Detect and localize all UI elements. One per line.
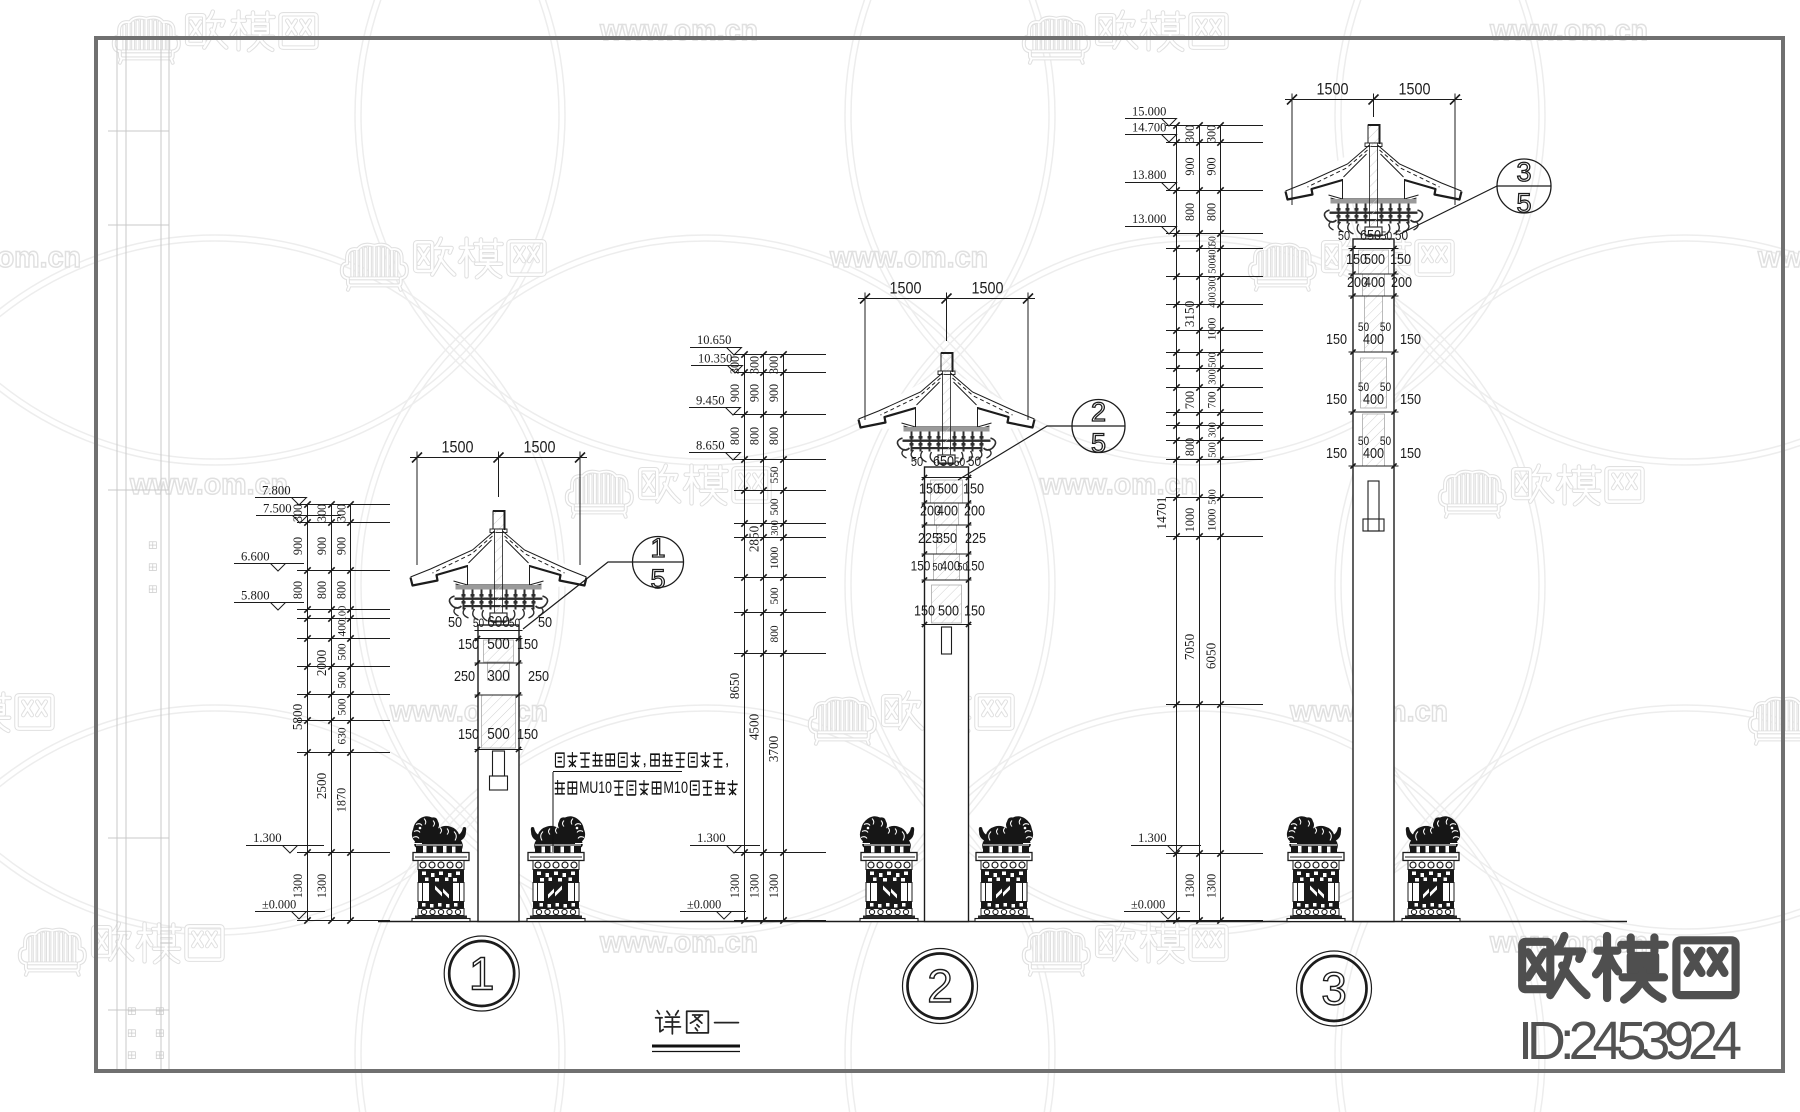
- svg-text:50: 50: [1338, 228, 1350, 243]
- svg-text:1300: 1300: [1204, 874, 1219, 898]
- svg-text:400: 400: [1363, 331, 1384, 348]
- svg-text:550: 550: [767, 467, 781, 484]
- svg-text:800: 800: [1182, 438, 1197, 456]
- svg-text:900: 900: [290, 537, 305, 555]
- svg-text:15.000: 15.000: [1132, 103, 1166, 118]
- svg-text:150: 150: [963, 481, 984, 498]
- svg-text:300: 300: [766, 356, 781, 374]
- svg-text:1500: 1500: [972, 279, 1004, 298]
- lion statue pedestal left of tower 3: [1287, 816, 1345, 921]
- svg-text:1300: 1300: [290, 874, 305, 898]
- drawing number circle 3: [1297, 951, 1372, 1026]
- svg-text:800: 800: [1204, 203, 1219, 221]
- svg-text:800: 800: [334, 581, 349, 599]
- svg-text:www.om.cn: www.om.cn: [1757, 241, 1800, 274]
- svg-text:2850: 2850: [748, 526, 763, 552]
- svg-text:150: 150: [517, 726, 538, 743]
- svg-text:1000: 1000: [1205, 318, 1219, 341]
- masonry note text line 1: [555, 750, 729, 769]
- detail callout 2/5: [1072, 400, 1125, 453]
- svg-text:250: 250: [528, 668, 549, 685]
- svg-text:9.450: 9.450: [696, 393, 725, 408]
- svg-text:150: 150: [911, 558, 931, 574]
- svg-text:150: 150: [1326, 331, 1347, 348]
- svg-text:3: 3: [1516, 157, 1531, 187]
- svg-text:800: 800: [727, 427, 742, 445]
- svg-text:225: 225: [965, 530, 986, 547]
- svg-text:1.300: 1.300: [253, 830, 282, 845]
- svg-text:150: 150: [1326, 445, 1347, 462]
- svg-text:50: 50: [509, 616, 521, 630]
- svg-text:500: 500: [1207, 258, 1219, 274]
- lion statue pedestal left of tower 1: [412, 816, 470, 921]
- tower 3 roof and dougong: [1286, 125, 1462, 237]
- svg-text:www.om.cn: www.om.cn: [599, 14, 758, 47]
- svg-text:6050: 6050: [1205, 643, 1220, 669]
- tower 2 roof and dougong: [859, 353, 1035, 465]
- svg-text:50: 50: [954, 455, 966, 469]
- svg-text:7.500: 7.500: [263, 501, 292, 516]
- svg-text:150: 150: [1400, 391, 1421, 408]
- svg-text:800: 800: [314, 581, 329, 599]
- svg-text:500: 500: [1207, 352, 1219, 368]
- svg-text:300: 300: [487, 668, 510, 685]
- svg-text:400: 400: [1364, 274, 1385, 291]
- ground line: [378, 921, 1627, 923]
- om.cn logo: [1522, 936, 1735, 1000]
- svg-text:500: 500: [335, 699, 349, 716]
- detail callout 3/5: [1497, 159, 1551, 213]
- sheet border and title block: [108, 38, 169, 1071]
- svg-text:4500: 4500: [748, 714, 763, 740]
- svg-text:900: 900: [766, 384, 781, 402]
- svg-text:500: 500: [335, 672, 349, 689]
- drawing number circle 2: [903, 949, 978, 1024]
- tower 3 dimension chain: [1155, 122, 1263, 923]
- svg-text:14.700: 14.700: [1132, 120, 1166, 135]
- svg-text:www.om.cn: www.om.cn: [0, 241, 81, 274]
- svg-text:900: 900: [334, 537, 349, 555]
- svg-text:500: 500: [335, 644, 349, 661]
- lion statue pedestal right of tower 1: [527, 816, 585, 921]
- tower 1 dimension chain: [290, 501, 390, 923]
- svg-text:300: 300: [1207, 422, 1219, 438]
- svg-text:1870: 1870: [334, 788, 349, 812]
- svg-text:5.800: 5.800: [241, 587, 270, 602]
- svg-text:50: 50: [538, 614, 552, 631]
- svg-text:100: 100: [337, 605, 349, 621]
- svg-text:50: 50: [1381, 229, 1393, 243]
- svg-text:3700: 3700: [767, 736, 782, 762]
- svg-text:800: 800: [290, 581, 305, 599]
- svg-text:500: 500: [767, 588, 781, 605]
- svg-text:300: 300: [1204, 125, 1219, 143]
- svg-text:800: 800: [767, 626, 781, 643]
- svg-text:50: 50: [473, 616, 485, 630]
- svg-text:500: 500: [767, 499, 781, 516]
- svg-text:1.300: 1.300: [697, 830, 726, 845]
- svg-text:ID:2453924: ID:2453924: [1518, 1011, 1742, 1071]
- svg-text:800: 800: [1182, 203, 1197, 221]
- tower 3 column: [1353, 239, 1394, 922]
- svg-text:2: 2: [927, 960, 953, 1012]
- svg-text:MU10: MU10: [579, 778, 612, 797]
- svg-text:800: 800: [747, 427, 762, 445]
- svg-text:1000: 1000: [1182, 508, 1197, 532]
- svg-text:1300: 1300: [747, 874, 762, 898]
- tower 1 top dimension 1500+1500: [410, 457, 587, 459]
- svg-text:400: 400: [1207, 244, 1219, 260]
- svg-text:13.000: 13.000: [1132, 211, 1166, 226]
- svg-text:400: 400: [1207, 292, 1219, 308]
- svg-text:M10: M10: [663, 778, 688, 797]
- svg-text:13.800: 13.800: [1132, 167, 1166, 182]
- svg-text:1.300: 1.300: [1138, 830, 1167, 845]
- svg-text:1500: 1500: [1317, 80, 1349, 99]
- svg-text:500: 500: [1207, 489, 1219, 505]
- svg-text:50: 50: [911, 454, 923, 469]
- svg-text:900: 900: [1182, 157, 1197, 175]
- svg-text:6.600: 6.600: [241, 549, 270, 564]
- svg-text:300: 300: [334, 504, 349, 522]
- svg-text:300: 300: [314, 504, 329, 522]
- svg-text:1000: 1000: [1205, 509, 1219, 532]
- tower 1 column: [478, 625, 519, 922]
- svg-text:300: 300: [1207, 369, 1219, 385]
- svg-text:50: 50: [1395, 227, 1408, 243]
- svg-text:150: 150: [1390, 251, 1411, 268]
- svg-text:500: 500: [1364, 251, 1385, 268]
- svg-text:±0.000: ±0.000: [1131, 897, 1165, 912]
- tower 1 roof and dougong: [411, 511, 587, 623]
- lion statue pedestal right of tower 3: [1402, 816, 1460, 921]
- svg-text:900: 900: [1204, 157, 1219, 175]
- svg-text:8.650: 8.650: [696, 438, 725, 453]
- svg-text:400: 400: [1363, 445, 1384, 462]
- svg-text:400: 400: [335, 620, 349, 637]
- svg-text:14701: 14701: [1155, 497, 1170, 530]
- svg-text:800: 800: [766, 427, 781, 445]
- svg-text:650: 650: [933, 453, 954, 470]
- svg-text:1: 1: [650, 533, 665, 563]
- svg-text:3150: 3150: [1183, 301, 1198, 327]
- svg-text:2: 2: [1091, 397, 1106, 427]
- svg-text:500: 500: [487, 726, 510, 743]
- svg-text:7050: 7050: [1183, 634, 1198, 660]
- svg-text:www.om.cn: www.om.cn: [829, 241, 988, 274]
- svg-text:±0.000: ±0.000: [687, 897, 721, 912]
- tower 2 dimension chain: [727, 351, 826, 923]
- svg-text:3: 3: [1321, 963, 1347, 1015]
- svg-text:150: 150: [964, 603, 985, 620]
- svg-text:1300: 1300: [1182, 874, 1197, 898]
- svg-text:900: 900: [727, 384, 742, 402]
- svg-text:400: 400: [937, 503, 958, 520]
- tower 2 column: [925, 467, 969, 922]
- svg-text:10.350: 10.350: [698, 350, 732, 365]
- svg-text:300: 300: [1182, 125, 1197, 143]
- svg-text:www.om.cn: www.om.cn: [389, 695, 548, 728]
- tower 3 top dimension 1500+1500: [1285, 99, 1462, 101]
- svg-text:150: 150: [914, 603, 935, 620]
- svg-text:www.om.cn: www.om.cn: [1489, 14, 1648, 47]
- svg-text:150: 150: [458, 726, 479, 743]
- svg-text:150: 150: [1326, 391, 1347, 408]
- svg-text:900: 900: [747, 384, 762, 402]
- svg-text:150: 150: [1400, 445, 1421, 462]
- svg-text:50: 50: [448, 614, 462, 631]
- caption: detail figure one: [656, 1011, 739, 1034]
- svg-text:1: 1: [469, 948, 495, 1000]
- svg-text:1300: 1300: [314, 874, 329, 898]
- svg-text:150: 150: [517, 636, 538, 653]
- svg-text:300: 300: [747, 356, 762, 374]
- svg-text:700: 700: [1182, 391, 1197, 409]
- svg-text:900: 900: [314, 537, 329, 555]
- svg-text:5800: 5800: [291, 704, 306, 730]
- svg-text:500: 500: [487, 636, 510, 653]
- svg-text:2000: 2000: [315, 650, 330, 676]
- svg-text:300: 300: [290, 504, 305, 522]
- svg-text:600: 600: [487, 614, 510, 631]
- svg-text:5: 5: [650, 564, 665, 594]
- svg-text:1500: 1500: [524, 438, 556, 457]
- svg-text:1300: 1300: [727, 874, 742, 898]
- svg-text:1500: 1500: [890, 279, 922, 298]
- svg-text:650: 650: [1360, 227, 1381, 244]
- svg-text:150: 150: [965, 558, 985, 574]
- svg-text:300: 300: [769, 520, 781, 536]
- drawing number circle 1: [444, 936, 519, 1011]
- svg-text:700: 700: [1205, 392, 1219, 409]
- masonry note text line 2: [555, 778, 738, 797]
- svg-text:500: 500: [937, 481, 958, 498]
- svg-text:1500: 1500: [1399, 80, 1431, 99]
- svg-text:1300: 1300: [766, 874, 781, 898]
- svg-text:±0.000: ±0.000: [262, 897, 296, 912]
- svg-text:10.650: 10.650: [697, 332, 731, 347]
- svg-text:5: 5: [1516, 188, 1531, 218]
- svg-text:5: 5: [1091, 428, 1106, 458]
- svg-text:300: 300: [1207, 276, 1219, 292]
- svg-text:250: 250: [454, 668, 475, 685]
- svg-text:150: 150: [458, 636, 479, 653]
- svg-text:1000: 1000: [767, 547, 781, 570]
- detail callout 1/5: [633, 537, 684, 588]
- lion statue pedestal left of tower 2: [860, 816, 918, 921]
- svg-text:500: 500: [1207, 442, 1219, 458]
- svg-text:150: 150: [1400, 331, 1421, 348]
- svg-text:,: ,: [642, 750, 647, 769]
- svg-text:200: 200: [1391, 274, 1412, 291]
- svg-text:2500: 2500: [315, 773, 330, 799]
- svg-text:www.om.cn: www.om.cn: [599, 926, 758, 959]
- svg-text:8650: 8650: [728, 673, 743, 699]
- svg-text:1500: 1500: [442, 438, 474, 457]
- svg-text:400: 400: [1363, 391, 1384, 408]
- tower 2 top dimension 1500+1500: [858, 298, 1035, 300]
- svg-text:350: 350: [936, 530, 957, 547]
- svg-text:630: 630: [335, 728, 349, 745]
- lion statue pedestal right of tower 2: [975, 816, 1033, 921]
- svg-text:500: 500: [938, 603, 959, 620]
- svg-text:7.800: 7.800: [262, 483, 291, 498]
- svg-text:www.om.cn: www.om.cn: [1039, 468, 1198, 501]
- svg-text:,: ,: [725, 750, 730, 769]
